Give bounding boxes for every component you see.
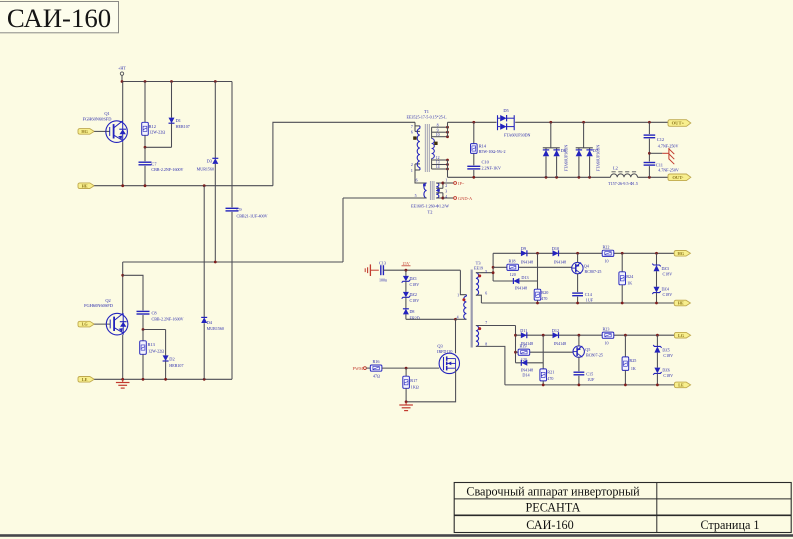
tab LG left [78,321,94,327]
node HE rail drive junctions [536,302,658,305]
wire 15V to T3 pin1 [460,270,466,295]
wire D8 to T3 pin4 node [406,318,457,321]
svg-text:C15: C15 [586,371,593,376]
svg-text:6: 6 [416,179,418,183]
label Q2 value [84,303,113,308]
svg-text:12W-22Ω: 12W-22Ω [149,130,165,135]
svg-text:1: 1 [445,179,447,183]
svg-text:C8: C8 [152,311,158,316]
tab HG right [674,251,690,257]
wire LG to Q2 gate [94,323,110,325]
svg-text:4: 4 [445,195,447,199]
svg-text:5: 5 [415,194,417,198]
zener DZ6 [653,368,661,385]
label T2 pin6 [416,179,418,183]
node drive A2 junctions [542,334,659,337]
wire T3pin4 to Q3 drain [455,319,457,353]
svg-text:T1: T1 [424,109,429,114]
power ground at C13 [365,264,379,276]
svg-text:CBB-2.2NF-1600V: CBB-2.2NF-1600V [151,167,183,172]
svg-text:10: 10 [604,259,608,264]
label R14 [479,143,506,154]
svg-text:R22: R22 [602,245,609,250]
T2 polarity dot primary [423,184,426,187]
label T2 pin2 [445,184,447,188]
svg-text:D5: D5 [503,108,509,113]
label T1 pin8 [437,123,439,127]
label Q2 [105,298,110,303]
capacitor C10 [467,153,480,177]
label R20 [541,290,548,301]
diode D6 dual [543,122,560,177]
label T1 pin6 [411,130,413,134]
svg-text:LE: LE [678,382,684,387]
wire Q3 source [405,369,456,404]
label Q1 value [83,117,112,122]
label C10 [482,159,502,170]
svg-text:1K: 1K [631,366,636,371]
tab LE left [78,377,94,383]
svg-text:D4: D4 [207,320,213,325]
wire drive A2 (LG) [516,334,675,336]
transistor Q5 [573,346,584,357]
resistor R14 [471,122,478,153]
svg-text:R14: R14 [479,143,487,148]
svg-text:DZ6: DZ6 [662,368,669,373]
label L2 value [608,181,638,186]
label Q3 value [437,349,452,354]
svg-text:4: 4 [457,315,459,319]
svg-text:DZ4: DZ4 [662,287,669,292]
svg-text:САИ-160: САИ-160 [7,3,111,33]
diode D11 [521,332,527,338]
svg-text:D8: D8 [410,309,415,314]
capacitor C13 [381,265,406,275]
wire secondary top [448,121,669,123]
svg-text:DZ3: DZ3 [662,266,669,271]
label R25 [629,358,636,371]
svg-text:MUR1560: MUR1560 [207,326,224,331]
svg-text:D1: D1 [176,118,181,123]
svg-text:IN4148: IN4148 [521,259,533,264]
svg-text:7: 7 [411,125,413,129]
node C8 tap [121,274,124,277]
svg-text:9: 9 [437,128,439,132]
diode D2 [163,330,169,380]
label D10 [552,246,566,264]
label C15 [586,371,595,382]
svg-text:IN4148: IN4148 [554,259,566,264]
svg-text:15V: 15V [402,261,410,266]
T1 polarity dot right [434,142,437,145]
diode D7 dual [576,122,593,177]
label D1 [176,118,190,129]
svg-text:BC807-25: BC807-25 [585,269,602,274]
wire Q5 emitter [578,335,580,346]
svg-text:САИ-160: САИ-160 [526,518,573,532]
label D7 value [596,145,601,172]
wire HE rail [94,185,273,187]
power port +HT [118,66,126,82]
node drive A junctions [536,252,658,255]
svg-text:R18: R18 [508,258,515,263]
resistor R24 [619,253,626,303]
label DZ2 [410,292,420,303]
T3 polarity dot pin5 [478,274,481,277]
svg-text:HG: HG [678,251,685,256]
node HE rail junctions [121,184,205,187]
port PWM [353,366,371,371]
resistor R12 [142,82,149,148]
tab HE left [78,183,94,189]
svg-text:C18V: C18V [410,282,420,287]
label D9 [521,246,533,264]
svg-text:FTA60UP30DN: FTA60UP30DN [504,133,531,138]
label D6 value [564,145,569,172]
label T3 pin1 [457,294,459,298]
svg-text:1: 1 [457,294,459,298]
label D8 [410,309,420,320]
label C13 [379,260,386,265]
node C11-C12 midpoint [648,152,651,155]
svg-text:HER107: HER107 [176,124,190,129]
diode D1 [169,82,175,148]
svg-text:8: 8 [437,123,439,127]
svg-text:1K: 1K [627,281,632,286]
label L2 [613,165,618,170]
label D11 [520,328,533,346]
label T1 pin1 [411,169,413,173]
label C7 [151,161,183,172]
diode D13 [513,278,519,284]
wire Q4 collector [577,274,579,292]
label T1 pin14 [436,165,440,169]
label T1 [424,109,429,114]
svg-text:HE: HE [678,301,684,306]
wire Q1 emitter [122,142,124,186]
label Q4 [584,263,602,274]
svg-text:+HT: +HT [118,66,126,71]
svg-text:Q4: Q4 [584,263,590,268]
svg-text:10: 10 [436,133,440,137]
svg-text:IRFD120: IRFD120 [437,349,452,354]
label R13 [148,342,165,353]
label D12 [552,328,566,346]
label T3 pin6 [485,291,487,295]
wire top rail [122,81,232,83]
capacitor C14 [572,293,583,303]
wire C8 branch top [123,275,143,310]
svg-text:C9: C9 [237,207,243,212]
svg-text:HE: HE [82,183,88,188]
svg-text:C12: C12 [657,137,664,142]
ground at Q2 emitter [116,379,130,388]
label Q1 [104,111,109,116]
label C14 [585,292,594,302]
transistor Q1 [106,121,128,143]
wire drive B (base) [493,266,572,268]
tab HG left [78,129,94,135]
wire LE rail [94,378,232,380]
title block table [454,483,791,533]
diode D4 [201,186,207,380]
svg-text:470: 470 [547,376,553,381]
resistor R22 [602,250,614,256]
svg-text:IP~: IP~ [458,181,465,186]
svg-text:12: 12 [436,156,440,160]
svg-text:R17: R17 [410,378,417,383]
diode D14 [521,360,527,366]
label T1 pin12 [436,156,440,160]
label D2 [169,357,183,369]
wire HG to Q1 gate [94,130,110,132]
zener DZ5 [653,335,661,367]
node Q3 gate [405,367,408,370]
svg-text:IN4148: IN4148 [515,285,527,290]
node LE rail drive junctions [542,384,659,387]
label R22 [602,245,609,264]
svg-text:8: 8 [485,342,487,346]
label D3 [197,158,214,171]
svg-text:MUR1560: MUR1560 [197,167,214,172]
svg-text:Q1: Q1 [104,111,109,116]
svg-text:3: 3 [445,190,447,194]
svg-text:4.7NF-250V: 4.7NF-250V [658,144,679,149]
resistor R17 [403,368,410,402]
zener DZ4 [652,287,660,303]
svg-text:BC807-25: BC807-25 [586,352,603,357]
svg-text:D13: D13 [521,275,528,280]
label T3 pin5 [485,270,487,274]
zener DZ3 [652,253,660,286]
tab LG right [674,332,690,338]
label D14 [521,367,533,377]
diode D3 [212,82,218,263]
svg-text:FTA60UP30DN: FTA60UP30DN [564,145,569,172]
wire R12-D1 node [144,146,172,149]
label C9 [237,207,268,218]
svg-text:DZ5: DZ5 [662,347,669,352]
svg-text:DZ2: DZ2 [410,292,417,297]
resistor R23 [602,332,614,338]
svg-text:T2: T2 [428,210,433,215]
svg-text:EE3525-17-5-0.15*25-L: EE3525-17-5-0.15*25-L [406,115,447,120]
diode D8 [403,309,409,320]
label Q5 [585,347,603,358]
inductor L2 [611,172,638,178]
svg-text:C10: C10 [482,159,490,164]
svg-text:Сварочный аппарат инверторный: Сварочный аппарат инверторный [466,484,640,498]
label T1 pin10 [436,133,440,137]
svg-text:GND-A: GND-A [458,196,473,201]
diode D5 dual [498,115,515,130]
label R18 [508,258,515,277]
svg-text:1UF: 1UF [586,297,594,302]
svg-text:Q3: Q3 [437,343,443,348]
label T2 pin1 [445,179,447,183]
svg-text:2.2NF-1KV: 2.2NF-1KV [482,166,502,171]
svg-text:R5W-10Ω-5%-2: R5W-10Ω-5%-2 [479,149,506,154]
svg-text:6: 6 [411,130,413,134]
label R17 [410,378,418,389]
label DZ1 [410,276,420,287]
svg-text:CBB-2.2NF-1600V: CBB-2.2NF-1600V [152,316,184,321]
diode D12 [553,332,559,338]
svg-text:R16: R16 [372,359,379,364]
label C8 [152,311,184,322]
svg-text:2: 2 [445,184,447,188]
ground at Q3 source [399,402,413,411]
svg-text:7: 7 [485,321,487,325]
zener DZ1 [402,270,410,292]
wire drive C (D13) [493,280,537,282]
svg-text:120: 120 [510,272,516,277]
label R19 [519,343,526,362]
svg-text:D3: D3 [207,158,213,163]
svg-text:Страница 1: Страница 1 [700,518,759,532]
label D6 [561,148,567,153]
svg-text:D2: D2 [169,357,174,362]
capacitor C11 [644,153,656,177]
label T2 value [411,204,449,209]
label C12 [657,137,679,149]
svg-text:LG: LG [82,322,89,327]
label C11 [656,162,679,172]
svg-text:D11: D11 [520,328,527,333]
chassis ground (output) [649,148,674,164]
svg-text:T3: T3 [476,260,482,265]
capacitor C9 [226,82,239,380]
label R21 [547,370,554,381]
svg-text:R12: R12 [149,124,156,129]
T2 polarity dot secondary [437,189,440,192]
svg-text:R25: R25 [629,358,636,363]
tab OUT+ [668,120,691,127]
wire T3 sec1 bus [492,253,495,281]
svg-text:EE1605-1:260-Φ1.2/W: EE1605-1:260-Φ1.2/W [411,204,449,209]
tab HE right [674,300,690,306]
svg-text:12W-22Ω: 12W-22Ω [148,348,164,353]
svg-text:1: 1 [411,169,413,173]
resistor R25 [622,335,629,385]
wire drive LE rail [505,384,675,386]
label DZ3 [662,266,673,277]
svg-text:13: 13 [436,161,440,165]
wire Q2 collector [122,262,124,313]
tab LE right [674,382,690,388]
svg-text:C18V: C18V [663,353,673,358]
wire Q4 emitter [577,253,579,262]
svg-text:R13: R13 [148,342,156,347]
svg-text:R23: R23 [602,327,609,332]
svg-text:1UF: 1UF [587,377,595,382]
svg-text:D9: D9 [521,246,526,251]
diode D10 [553,250,559,256]
svg-text:47Ω: 47Ω [373,373,380,378]
svg-text:R19: R19 [519,343,526,348]
svg-text:D14: D14 [522,373,530,378]
transistor Q2 [106,313,128,335]
T1 polarity dot left [413,136,416,139]
svg-text:Q5: Q5 [585,347,590,352]
svg-text:DZ1: DZ1 [410,276,417,281]
resistor R13 [140,330,147,380]
svg-text:R20: R20 [541,290,548,295]
svg-text:HER107: HER107 [169,363,183,368]
resistor R16 [370,365,439,371]
title box top-left [0,2,119,33]
svg-text:OUT-: OUT- [672,175,684,180]
svg-text:D12: D12 [552,328,559,333]
capacitor C7 [139,147,152,185]
node top output junctions [472,121,650,124]
svg-text:14: 14 [436,165,440,169]
wire T2 pin5 to LG rail [342,198,344,262]
svg-text:2: 2 [411,163,413,167]
svg-text:6: 6 [485,291,487,295]
diode D9 [521,250,527,256]
wire C8-D2 node [142,328,166,331]
resistor R18 [507,264,519,270]
transformer T3 [456,270,516,385]
svg-text:LE: LE [82,377,88,382]
wire Q5 collector [578,357,580,371]
label D5 [503,108,509,113]
svg-text:4.7NF-250V: 4.7NF-250V [658,167,679,172]
node bottom output junctions [472,176,650,179]
label T3 pin4 [457,315,459,319]
label D4 [207,320,224,331]
wire T3 sec2 bus [514,326,517,363]
label DZ6 [662,368,673,379]
wire HE to T1 pin7 [273,122,415,185]
label D7 [593,148,599,153]
wire 15V rail [405,269,461,272]
svg-text:FGH60N60SFD: FGH60N60SFD [83,117,112,122]
svg-text:R21: R21 [547,370,554,375]
label T1 value [406,115,447,120]
label D13 [515,275,529,290]
wire drive HE rail [481,302,674,304]
label T2 pin3 [445,190,447,194]
wire Q2 emitter [122,335,124,380]
svg-text:РЕСАНТА: РЕСАНТА [526,500,581,514]
port GND-A [443,196,473,201]
label T1 pin9 [437,128,439,132]
label R24 [626,274,634,285]
label T3 [476,260,482,265]
wire LG rail (Q2 collector) [123,261,343,264]
svg-text:5: 5 [485,270,487,274]
svg-text:EE19: EE19 [474,266,483,271]
label D5 value [504,133,531,138]
svg-text:LG: LG [678,333,685,338]
svg-text:OUT+: OUT+ [672,121,685,126]
label T3 pin8 [485,342,487,346]
label R12 [149,124,166,135]
svg-text:FTA60UP30DN: FTA60UP30DN [596,145,601,172]
resistor R20 [534,253,541,303]
wire drive A (HG) [493,252,674,254]
label R23 [602,327,609,346]
svg-text:C7: C7 [151,161,157,166]
svg-text:100n: 100n [379,277,387,282]
power label 15V [402,261,411,266]
T3 polarity dot pin7 [478,327,481,330]
wire secondary bottom [448,176,669,178]
resistor R19 [518,349,530,355]
svg-text:D10: D10 [552,246,559,251]
